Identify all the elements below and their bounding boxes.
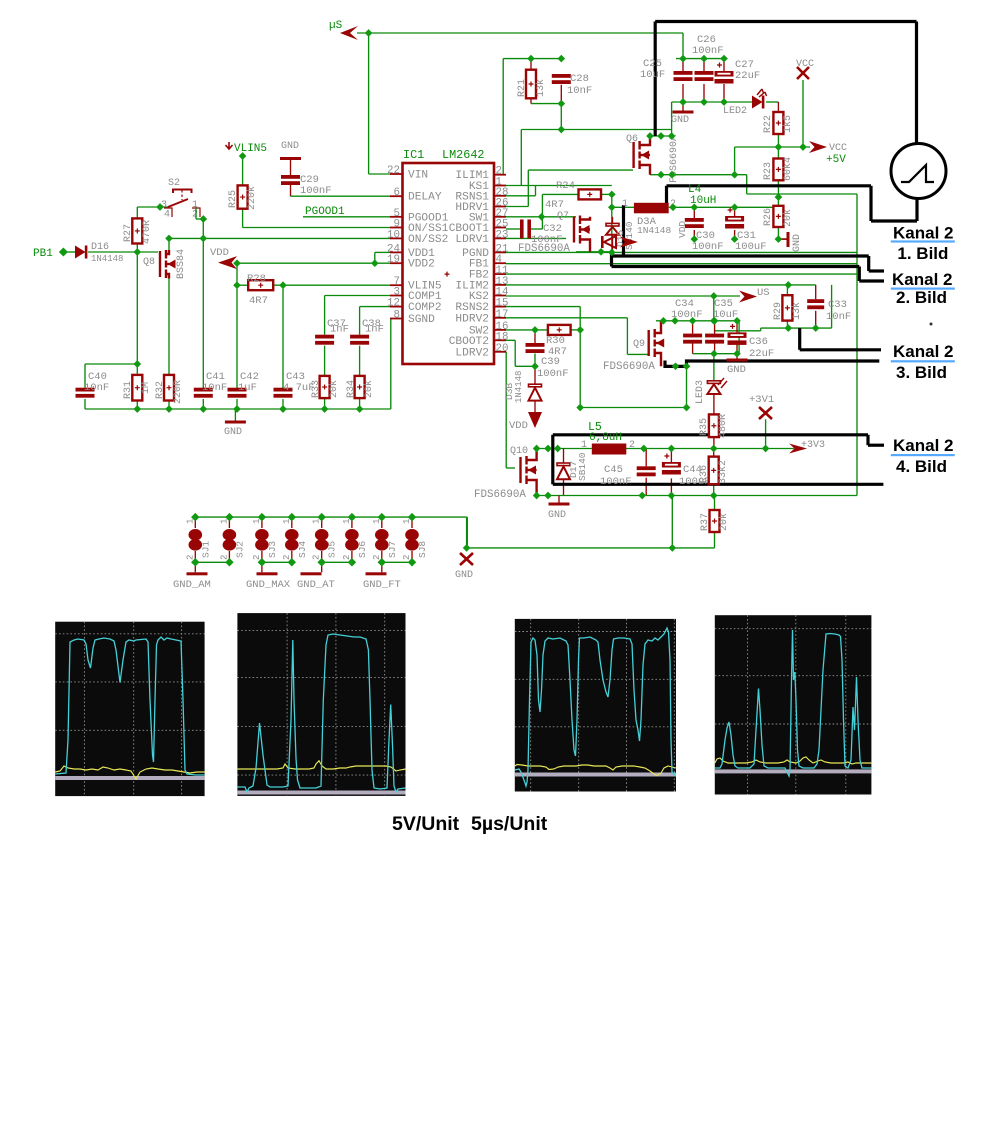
svg-text:GND: GND xyxy=(224,427,242,438)
svg-text:+5V: +5V xyxy=(826,154,846,166)
svg-text:Kanal 2: Kanal 2 xyxy=(893,436,953,455)
svg-text:1: 1 xyxy=(622,199,628,210)
svg-text:22uF: 22uF xyxy=(735,70,760,82)
svg-text:VCC: VCC xyxy=(829,143,847,154)
svg-text:1uF: 1uF xyxy=(238,382,257,394)
svg-text:R33: R33 xyxy=(311,380,322,398)
svg-text:100nF: 100nF xyxy=(692,45,724,57)
svg-text:100uF: 100uF xyxy=(735,241,767,253)
svg-text:13k: 13k xyxy=(791,302,803,320)
svg-text:5µs/Unit: 5µs/Unit xyxy=(471,813,548,835)
svg-text:R28: R28 xyxy=(247,273,266,285)
svg-text:20: 20 xyxy=(496,343,509,355)
svg-text:R29: R29 xyxy=(773,302,784,320)
svg-text:Q7: Q7 xyxy=(557,211,569,222)
svg-text:C39: C39 xyxy=(541,356,560,368)
svg-text:ON/SS2: ON/SS2 xyxy=(408,234,448,246)
svg-text:3. Bild: 3. Bild xyxy=(896,363,947,382)
svg-text:6,8uH: 6,8uH xyxy=(589,432,622,444)
svg-text:Kanal 2: Kanal 2 xyxy=(893,224,953,243)
svg-text:µS: µS xyxy=(329,20,343,32)
svg-text:R36: R36 xyxy=(699,465,710,483)
svg-text:2: 2 xyxy=(312,555,322,560)
svg-text:VDD: VDD xyxy=(210,247,229,259)
svg-text:SJ3: SJ3 xyxy=(267,541,278,558)
svg-text:FDS6690A: FDS6690A xyxy=(474,489,526,501)
svg-text:R35: R35 xyxy=(699,418,710,436)
svg-text:10nF: 10nF xyxy=(84,382,109,394)
svg-text:100nF: 100nF xyxy=(692,241,724,253)
svg-text:LED3: LED3 xyxy=(695,380,706,404)
svg-text:R34: R34 xyxy=(346,380,357,398)
svg-text:10uF: 10uF xyxy=(640,69,665,81)
svg-text:+3V3: +3V3 xyxy=(801,440,825,451)
svg-text:GND: GND xyxy=(792,234,803,252)
svg-text:12: 12 xyxy=(387,298,400,310)
svg-text:100nF: 100nF xyxy=(537,368,569,380)
svg-text:22uF: 22uF xyxy=(749,348,774,360)
svg-text:4. Bild: 4. Bild xyxy=(896,457,947,476)
svg-text:100nF: 100nF xyxy=(531,234,563,246)
svg-text:22: 22 xyxy=(387,165,400,177)
svg-text:480R: 480R xyxy=(718,414,729,438)
svg-text:GND: GND xyxy=(281,141,299,152)
svg-text:SJ8: SJ8 xyxy=(417,541,428,558)
svg-text:LDRV2: LDRV2 xyxy=(455,347,489,359)
svg-text:10nF: 10nF xyxy=(826,311,851,323)
svg-text:VDD2: VDD2 xyxy=(408,259,435,271)
svg-text:1N4148: 1N4148 xyxy=(514,371,524,403)
svg-text:1N4148: 1N4148 xyxy=(637,225,672,236)
svg-text:GND_AT: GND_AT xyxy=(297,579,335,591)
svg-text:6: 6 xyxy=(394,187,400,199)
svg-text:GND: GND xyxy=(548,510,566,521)
svg-text:C28: C28 xyxy=(570,73,589,85)
svg-text:2: 2 xyxy=(252,555,262,560)
svg-text:SJ5: SJ5 xyxy=(327,541,338,558)
svg-text:100nF: 100nF xyxy=(600,476,632,488)
svg-text:2: 2 xyxy=(372,555,382,560)
svg-text:SJ7: SJ7 xyxy=(387,541,398,558)
svg-text:IC1: IC1 xyxy=(403,148,424,162)
svg-text:20k: 20k xyxy=(782,209,794,227)
svg-text:Q6: Q6 xyxy=(626,134,638,145)
svg-text:R25: R25 xyxy=(228,190,239,208)
svg-text:SJ2: SJ2 xyxy=(234,541,245,558)
svg-text:CBOOT2: CBOOT2 xyxy=(449,336,489,348)
svg-text:1M: 1M xyxy=(141,382,152,394)
svg-text:R32: R32 xyxy=(155,381,166,399)
svg-text:VDD: VDD xyxy=(677,221,688,238)
svg-text:10nF: 10nF xyxy=(202,382,227,394)
svg-text:D16: D16 xyxy=(91,242,109,253)
svg-text:GND: GND xyxy=(671,115,689,126)
svg-text:Q10: Q10 xyxy=(510,446,528,457)
svg-text:S2: S2 xyxy=(168,178,180,189)
svg-text:Kanal 2: Kanal 2 xyxy=(893,342,953,361)
svg-text:GND: GND xyxy=(455,570,473,581)
svg-text:2: 2 xyxy=(402,555,412,560)
svg-text:100nF: 100nF xyxy=(300,185,332,197)
svg-text:R21: R21 xyxy=(517,79,528,97)
svg-text:1: 1 xyxy=(581,440,587,451)
svg-text:R37: R37 xyxy=(700,513,711,531)
svg-text:LM2642: LM2642 xyxy=(442,148,484,162)
svg-text:10: 10 xyxy=(387,229,400,241)
svg-text:COMP2: COMP2 xyxy=(408,302,442,314)
svg-text:SJ1: SJ1 xyxy=(200,541,211,558)
svg-text:R27: R27 xyxy=(123,224,134,242)
svg-text:13k: 13k xyxy=(535,79,547,97)
svg-text:1N4148: 1N4148 xyxy=(91,254,123,264)
svg-text:220k: 220k xyxy=(246,186,258,210)
svg-text:60k4: 60k4 xyxy=(782,157,794,181)
svg-text:HDRV2: HDRV2 xyxy=(455,313,489,325)
svg-text:470R: 470R xyxy=(142,220,153,244)
svg-text:23: 23 xyxy=(496,229,509,241)
svg-text:C33: C33 xyxy=(828,299,847,311)
svg-text:4: 4 xyxy=(164,210,170,221)
svg-text:US: US xyxy=(757,287,770,299)
svg-text:19: 19 xyxy=(387,254,400,266)
svg-text:PB1: PB1 xyxy=(33,248,53,260)
svg-text:RSNS2: RSNS2 xyxy=(455,302,489,314)
svg-text:2: 2 xyxy=(192,210,198,221)
svg-text:SJ4: SJ4 xyxy=(297,541,308,558)
svg-text:10nF: 10nF xyxy=(567,85,592,97)
svg-text:GND_FT: GND_FT xyxy=(363,579,401,591)
svg-text:SB140: SB140 xyxy=(577,452,588,481)
svg-text:VDD: VDD xyxy=(509,420,528,432)
svg-text:2: 2 xyxy=(342,555,352,560)
svg-text:2: 2 xyxy=(629,440,635,451)
svg-text:VLIN5: VLIN5 xyxy=(234,143,267,155)
svg-text:2: 2 xyxy=(282,555,292,560)
svg-text:17: 17 xyxy=(496,309,509,321)
svg-text:20k: 20k xyxy=(718,513,730,531)
svg-text:C36: C36 xyxy=(749,336,768,348)
svg-text:Q9: Q9 xyxy=(633,339,645,350)
svg-text:LED2: LED2 xyxy=(723,106,747,117)
svg-text:2: 2 xyxy=(185,555,195,560)
svg-text:2: 2 xyxy=(219,555,229,560)
svg-text:R23: R23 xyxy=(763,162,774,180)
svg-text:Q8: Q8 xyxy=(143,257,155,268)
svg-text:2. Bild: 2. Bild xyxy=(896,288,947,307)
svg-text:C45: C45 xyxy=(604,464,623,476)
svg-text:4R7: 4R7 xyxy=(545,199,564,211)
svg-text:BSS84: BSS84 xyxy=(176,249,187,279)
svg-text:220R: 220R xyxy=(173,380,184,404)
svg-text:GND_AM: GND_AM xyxy=(173,579,211,591)
svg-text:1. Bild: 1. Bild xyxy=(897,244,948,263)
svg-text:4R7: 4R7 xyxy=(249,295,268,307)
svg-text:5V/Unit: 5V/Unit xyxy=(392,813,460,835)
svg-text:1k5: 1k5 xyxy=(782,115,794,133)
svg-text:+3V1: +3V1 xyxy=(749,394,774,406)
svg-text:VIN: VIN xyxy=(408,170,428,182)
svg-text:DELAY: DELAY xyxy=(408,192,442,204)
svg-text:8: 8 xyxy=(394,310,400,322)
svg-text:1nF: 1nF xyxy=(365,324,384,336)
svg-text:4.7uF: 4.7uF xyxy=(283,382,315,394)
svg-text:1nF: 1nF xyxy=(330,324,349,336)
svg-text:SJ6: SJ6 xyxy=(357,541,368,558)
svg-text:20k: 20k xyxy=(328,380,340,398)
svg-text:R26: R26 xyxy=(763,208,774,226)
svg-text:18: 18 xyxy=(496,331,509,343)
svg-text:R31: R31 xyxy=(123,381,134,399)
svg-text:R24: R24 xyxy=(556,180,575,192)
svg-text:GND: GND xyxy=(727,364,746,376)
svg-text:Kanal 2: Kanal 2 xyxy=(892,270,952,289)
svg-text:33k2: 33k2 xyxy=(717,460,729,484)
svg-text:GND_MAX: GND_MAX xyxy=(246,579,291,591)
svg-text:LDRV1: LDRV1 xyxy=(455,234,489,246)
svg-text:20k: 20k xyxy=(363,380,375,398)
svg-text:PGOOD1: PGOOD1 xyxy=(305,206,345,218)
svg-text:FDS6690A: FDS6690A xyxy=(603,361,655,373)
svg-text:R22: R22 xyxy=(763,115,774,133)
svg-text:SGND: SGND xyxy=(408,314,435,326)
svg-text:15: 15 xyxy=(496,298,509,310)
